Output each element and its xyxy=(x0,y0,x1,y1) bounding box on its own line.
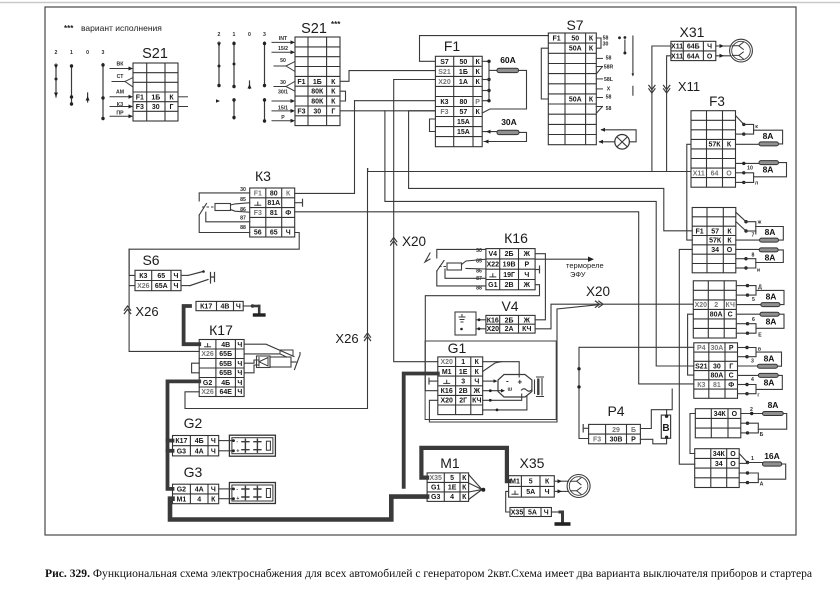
wire Р4 Б up xyxy=(640,389,672,428)
svg-text:К: К xyxy=(727,238,732,245)
stub F3 r7 xyxy=(736,172,744,174)
svg-text:G1: G1 xyxy=(431,485,440,492)
svg-text:65: 65 xyxy=(157,273,165,280)
stub F3 r3 xyxy=(736,133,744,135)
svg-text:О: О xyxy=(730,461,736,468)
wire Р xyxy=(272,120,293,122)
К17 solenoid box xyxy=(270,357,291,367)
svg-text:Ч: Ч xyxy=(236,304,241,311)
svg-text:57: 57 xyxy=(711,228,719,235)
connector X31 table xyxy=(671,41,716,60)
svg-text:64: 64 xyxy=(711,170,719,177)
svg-text:Ж: Ж xyxy=(473,388,481,395)
wire 64А xyxy=(667,56,671,172)
svg-text:1: 1 xyxy=(70,50,73,56)
relay Р4 table xyxy=(589,424,641,443)
wire СТ stem xyxy=(112,81,125,83)
svg-text:X26: X26 xyxy=(137,283,150,290)
thick 4Б xyxy=(168,381,200,489)
svg-text:К: К xyxy=(286,190,291,197)
wire 64Е X26 xyxy=(185,169,368,409)
wire G3 r2 bat xyxy=(219,498,232,500)
stub S7 58R xyxy=(596,66,602,68)
svg-text:К16: К16 xyxy=(441,388,453,395)
fuse block (X20/80А) table xyxy=(693,281,736,338)
svg-text:-: - xyxy=(506,377,509,386)
relay К3 table xyxy=(250,188,295,237)
svg-text:65: 65 xyxy=(270,230,278,237)
svg-text:Г: Г xyxy=(331,108,335,115)
svg-text:X20: X20 xyxy=(487,326,500,333)
svg-text:+: + xyxy=(236,496,239,502)
loop B3 fuse2 xyxy=(756,314,784,328)
svg-text:65А: 65А xyxy=(155,283,168,290)
connector X20 chevron (lower) xyxy=(599,301,603,307)
svg-text:Ч: Ч xyxy=(237,380,242,387)
wire 19Г xyxy=(535,269,539,271)
svg-text:80А: 80А xyxy=(710,373,723,380)
svg-text:85: 85 xyxy=(240,197,246,203)
svg-text:F1: F1 xyxy=(444,38,461,54)
fuse 8А (F3 upper) xyxy=(759,142,779,146)
svg-text:15А: 15А xyxy=(457,129,470,136)
wire X20 1А vertical to G1 xyxy=(394,80,438,362)
stub B6 r2 xyxy=(739,462,747,464)
wire B5 to fuse xyxy=(741,413,763,415)
svg-text:S21: S21 xyxy=(438,69,451,76)
wire X35 r1 plug xyxy=(554,480,568,482)
svg-text:1: 1 xyxy=(233,32,236,38)
svg-text:Ч: Ч xyxy=(237,342,242,349)
svg-text:87: 87 xyxy=(240,216,246,222)
bus F3 right b xyxy=(744,130,754,134)
svg-text:-: - xyxy=(236,487,238,493)
stub F3 r8 xyxy=(736,181,744,183)
svg-text:X26: X26 xyxy=(201,389,214,396)
diag G1 r2 xyxy=(483,362,501,372)
stub S7 58 xyxy=(596,106,602,108)
svg-text:К: К xyxy=(589,97,594,104)
svg-text:8А: 8А xyxy=(763,165,774,175)
svg-text:***: *** xyxy=(64,24,74,33)
wire 57К link xyxy=(687,144,692,240)
svg-text:-: - xyxy=(236,439,238,445)
svg-text:64А: 64А xyxy=(687,53,700,60)
svg-text:Д: Д xyxy=(758,285,762,291)
svg-text:1Е: 1Е xyxy=(448,485,457,492)
svg-text:К: К xyxy=(475,69,480,76)
bracket F1 15А xyxy=(430,119,436,132)
wire G3 r1 bat xyxy=(219,488,232,490)
svg-text:G2: G2 xyxy=(184,415,203,431)
switch position line 3 (S21 v2) xyxy=(264,42,266,122)
diag B6 xyxy=(739,454,747,463)
svg-text:4А: 4А xyxy=(195,487,204,494)
svg-text:К: К xyxy=(475,109,480,116)
fuse block F3 table xyxy=(691,111,736,188)
svg-text:К: К xyxy=(727,228,732,235)
svg-text:30А: 30А xyxy=(710,345,723,352)
stub S6 X26 xyxy=(129,285,135,287)
wire lamp left xyxy=(600,141,615,143)
S7 contact diagonal strokes xyxy=(597,67,603,113)
svg-text:X20: X20 xyxy=(402,234,426,249)
svg-text:81: 81 xyxy=(270,210,278,217)
wire V4 r2 box xyxy=(476,328,486,330)
svg-text:К: К xyxy=(169,94,174,101)
fuse 60А body xyxy=(497,68,519,72)
svg-text:Ч: Ч xyxy=(211,487,216,494)
connector X35-5А table xyxy=(510,508,551,517)
svg-text:С: С xyxy=(729,373,734,380)
stub S7 58 xyxy=(596,97,602,99)
stub B4 r2 xyxy=(738,356,748,358)
wire 80А link xyxy=(688,314,694,375)
svg-text:О: О xyxy=(730,451,736,458)
svg-text:50: 50 xyxy=(571,36,579,43)
page top rule xyxy=(0,2,840,4)
svg-text:Б: Б xyxy=(631,427,636,434)
loop F3 fuse1 xyxy=(754,130,783,144)
bracket B3 up xyxy=(748,286,757,296)
svg-text:30В: 30В xyxy=(610,436,623,443)
connector X11 chevron a xyxy=(649,89,655,93)
connector X11 chevron b xyxy=(664,89,670,93)
svg-text:ш: ш xyxy=(508,387,513,393)
svg-text:л: л xyxy=(755,181,758,187)
svg-text:Ч: Ч xyxy=(211,438,216,445)
generator symbol xyxy=(498,375,532,398)
svg-text:15А: 15А xyxy=(457,119,470,126)
connector X35 table xyxy=(509,476,555,497)
wire 64Б xyxy=(652,46,671,172)
connector X26 chevron (left) xyxy=(124,306,130,310)
switch position line 0 (S21 v2) xyxy=(249,81,251,89)
suppression capacitor at generator xyxy=(535,377,544,397)
svg-text:Рис. 329. Функциональная схема: Рис. 329. Функциональная схема электросн… xyxy=(45,567,812,580)
svg-text:80К: 80К xyxy=(311,89,324,96)
svg-text:X20: X20 xyxy=(438,79,451,86)
svg-text:S21: S21 xyxy=(301,21,327,37)
svg-text:Ч: Ч xyxy=(237,370,242,377)
diag B2 r1 xyxy=(736,212,746,222)
svg-text:К16: К16 xyxy=(504,230,528,246)
svg-text:Р: Р xyxy=(631,436,636,443)
wire G1 r1 + xyxy=(483,362,520,377)
bracket К17 xyxy=(192,363,200,373)
bracket B5 xyxy=(748,423,759,433)
wire К17 r4 elem xyxy=(244,365,258,373)
wire to 16А xyxy=(748,462,763,464)
switch position line 2 (S21 v1) xyxy=(55,64,57,97)
svg-text:Е: Е xyxy=(758,333,762,339)
svg-text:X: X xyxy=(607,87,611,93)
svg-text:50: 50 xyxy=(460,59,468,66)
svg-text:К3: К3 xyxy=(139,273,147,280)
svg-text:Ч: Ч xyxy=(237,389,242,396)
connector X20 chevron (upper) xyxy=(391,238,397,242)
svg-text:2А: 2А xyxy=(505,326,514,333)
stub B4 r1 xyxy=(738,347,748,349)
stub S7 X xyxy=(596,88,602,90)
svg-text:6: 6 xyxy=(752,317,755,323)
battery symbol G2 xyxy=(229,435,275,456)
wire to F3 64 xyxy=(368,171,691,173)
diag B2 r2 xyxy=(736,222,746,232)
svg-text:К: К xyxy=(331,79,336,86)
svg-text:0: 0 xyxy=(248,32,251,38)
svg-text:S21: S21 xyxy=(142,46,168,62)
fuse 8А (B2 upper) xyxy=(760,238,779,242)
bracket 80К xyxy=(340,91,346,101)
stub F1 row4 xyxy=(482,90,489,92)
wire К16 87 xyxy=(445,269,486,278)
plug symbol at X35 xyxy=(567,475,590,498)
svg-text:7: 7 xyxy=(752,233,755,239)
svg-text:1Б: 1Б xyxy=(151,94,160,101)
svg-text:30: 30 xyxy=(240,187,246,193)
svg-text:К: К xyxy=(462,494,467,501)
loop B4 fuse1 xyxy=(756,352,782,366)
wire 4В gnd xyxy=(243,305,252,307)
wire 15/1 xyxy=(272,110,293,112)
svg-text:80А: 80А xyxy=(710,312,723,319)
wire pin86 coil xyxy=(231,210,250,213)
wire 5А gnd xyxy=(551,511,560,513)
bus B2 xyxy=(746,222,756,234)
svg-text:2Б: 2Б xyxy=(505,317,514,324)
svg-text:К: К xyxy=(475,369,480,376)
fuse 30А body xyxy=(497,130,519,134)
svg-text:X11: X11 xyxy=(693,170,705,177)
svg-text:81: 81 xyxy=(713,382,721,389)
svg-text:F1: F1 xyxy=(696,228,704,235)
svg-text:1Б: 1Б xyxy=(459,69,468,76)
svg-text:34К: 34К xyxy=(714,411,727,418)
svg-text:Р: Р xyxy=(475,99,480,106)
svg-text:8А: 8А xyxy=(765,253,776,263)
wire ВК xyxy=(110,68,131,70)
wire 30/1 xyxy=(272,100,293,102)
svg-text:34: 34 xyxy=(715,461,723,468)
wire X31 row2 plug xyxy=(716,55,731,57)
wire КЗ xyxy=(110,106,131,108)
wire pin88 xyxy=(199,215,250,233)
stub B4 r5 xyxy=(738,384,748,386)
svg-text:3: 3 xyxy=(461,378,465,385)
svg-text:F3: F3 xyxy=(440,109,448,116)
svg-text:G3: G3 xyxy=(177,448,186,455)
svg-text:Ж: Ж xyxy=(523,251,531,258)
svg-text:К: К xyxy=(589,36,594,43)
svg-text:К16: К16 xyxy=(487,317,499,324)
svg-text:30: 30 xyxy=(152,104,160,111)
svg-text:К: К xyxy=(331,99,336,106)
bus B2 b xyxy=(746,230,756,232)
svg-text:К: К xyxy=(727,142,732,149)
bracket B6 xyxy=(748,473,759,483)
wire 15/2 xyxy=(272,51,293,53)
wire 2Б xyxy=(535,254,545,320)
svg-text:58R: 58R xyxy=(604,65,614,71)
svg-text:58: 58 xyxy=(606,106,612,112)
К3 coil xyxy=(215,204,231,211)
reference strokes column right of S7 xyxy=(618,36,621,39)
svg-text:F3: F3 xyxy=(709,94,725,109)
К3 mech link dashed xyxy=(202,206,215,208)
svg-text:V4: V4 xyxy=(501,298,518,314)
wire 50 up xyxy=(286,62,295,67)
wire К17 r2 elem xyxy=(244,354,286,357)
svg-text:S21: S21 xyxy=(695,363,708,370)
fuse block (34) table xyxy=(695,449,740,488)
svg-text:Г: Г xyxy=(729,363,733,370)
svg-text:F1: F1 xyxy=(254,190,262,197)
svg-text:G3: G3 xyxy=(184,464,203,480)
thick 4В xyxy=(184,306,200,344)
svg-text:КЗ: КЗ xyxy=(117,102,124,108)
fuse 16А xyxy=(763,462,782,466)
svg-text:G3: G3 xyxy=(431,494,440,501)
wire 2А X20 xyxy=(535,304,693,329)
svg-text:30: 30 xyxy=(713,363,721,370)
bracket B3 low xyxy=(748,324,757,334)
svg-text:0: 0 xyxy=(86,50,89,56)
wire S21 30Г to fuse block B4 row S21-30-Г xyxy=(385,111,694,366)
svg-text:80К: 80К xyxy=(311,99,324,106)
svg-text:5: 5 xyxy=(752,297,755,303)
svg-text:Ч: Ч xyxy=(237,361,242,368)
svg-text:5: 5 xyxy=(450,475,454,482)
svg-text:X11: X11 xyxy=(678,79,700,94)
wire К3 65 xyxy=(129,233,299,276)
fuse block (57/34) table xyxy=(692,208,736,273)
wire 2Г xyxy=(429,305,599,422)
wire СТ fork down xyxy=(125,82,133,88)
wire X31 row1 plug xyxy=(716,45,731,47)
bracket B4 low xyxy=(747,385,756,394)
svg-text:S7: S7 xyxy=(440,59,449,66)
svg-text:ж: ж xyxy=(757,220,762,226)
wire 30 stem xyxy=(274,86,286,88)
svg-text:Р: Р xyxy=(281,115,285,121)
fuse 8А (B4 upper) xyxy=(758,364,778,368)
svg-text:М1: М1 xyxy=(510,479,520,486)
fuse 8А (B2 lower) xyxy=(759,248,778,252)
svg-text:Ф: Ф xyxy=(728,382,734,389)
svg-text:КЧ: КЧ xyxy=(522,326,531,333)
svg-text:АМ: АМ xyxy=(116,90,124,96)
svg-text:4: 4 xyxy=(751,377,754,383)
wire Р4 Р under xyxy=(640,438,666,444)
stub S7 58 xyxy=(596,57,602,59)
wire СТ fork up xyxy=(125,78,133,82)
svg-text:Ж: Ж xyxy=(523,282,531,289)
svg-text:Р: Р xyxy=(524,262,529,269)
svg-text:10: 10 xyxy=(747,166,753,172)
svg-text:К17: К17 xyxy=(200,304,212,311)
К17 diode symbol xyxy=(257,356,271,368)
fuse 8А (B3 lower) xyxy=(760,312,779,316)
battery symbol G3 xyxy=(229,483,275,504)
svg-text:1: 1 xyxy=(461,359,465,366)
stub B2 r7 xyxy=(736,267,746,269)
svg-text:5А: 5А xyxy=(526,489,535,496)
plug symbol at X31 xyxy=(730,39,753,62)
svg-text:2: 2 xyxy=(218,32,221,38)
wire G2 r1 bat xyxy=(219,440,232,442)
wire 5А xyxy=(506,491,510,512)
wire К3 Ф long xyxy=(295,212,694,384)
bracket B2 lower xyxy=(746,259,756,268)
stub F1 row3 xyxy=(482,79,489,81)
svg-text:1А: 1А xyxy=(459,79,468,86)
wire К17 r1 elem xyxy=(244,344,294,356)
svg-text:ПР: ПР xyxy=(116,111,124,117)
svg-text:2В: 2В xyxy=(459,388,468,395)
fuse unit F1 table xyxy=(435,56,482,146)
wire 30 up xyxy=(286,81,295,86)
svg-text:К: К xyxy=(462,485,467,492)
svg-text:S6: S6 xyxy=(142,252,159,268)
svg-text:F1: F1 xyxy=(553,36,561,43)
stub B5 r3 xyxy=(741,432,748,434)
svg-text:+: + xyxy=(236,449,239,455)
svg-text:Г: Г xyxy=(170,104,174,111)
svg-text:5А: 5А xyxy=(528,510,537,517)
svg-text:4Б: 4Б xyxy=(195,438,204,445)
svg-text:Ч: Ч xyxy=(544,510,549,517)
svg-text:INT: INT xyxy=(279,36,288,42)
wire B4 S21-30 to fuse xyxy=(738,365,758,367)
svg-text:F3: F3 xyxy=(254,210,262,217)
svg-text:3: 3 xyxy=(751,359,754,365)
fuse 8А (F3 lower) xyxy=(759,161,779,165)
wire X35 r2 plug xyxy=(554,490,568,492)
К16 coil xyxy=(447,263,462,270)
svg-text:Ж: Ж xyxy=(523,317,531,324)
svg-text:КЧ: КЧ xyxy=(472,398,481,405)
svg-text:О: О xyxy=(726,170,732,177)
svg-text:4В: 4В xyxy=(221,304,230,311)
stub row F1-1Б xyxy=(178,96,188,98)
svg-text:G2: G2 xyxy=(177,487,186,494)
wire 81А xyxy=(295,202,303,204)
switch position line 3 (S21 v1) xyxy=(102,64,104,120)
svg-text:65В: 65В xyxy=(219,361,232,368)
svg-text:50А: 50А xyxy=(569,97,582,104)
wire К16 88 xyxy=(437,271,486,286)
svg-text:***: *** xyxy=(331,20,341,29)
wire АМ xyxy=(110,96,131,98)
wire B3 X20 to fuse xyxy=(736,304,761,306)
wire F1 57 long route xyxy=(409,111,693,231)
svg-text:к: к xyxy=(755,124,758,130)
svg-text:К: К xyxy=(331,89,336,96)
svg-text:О: О xyxy=(732,411,738,418)
thick 5 xyxy=(421,448,508,481)
svg-text:X20: X20 xyxy=(440,359,453,366)
svg-text:Р: Р xyxy=(729,345,734,352)
wire 50 stem xyxy=(274,65,286,67)
svg-text:ЭФУ: ЭФУ xyxy=(570,270,586,279)
wire bus to fuse 60А xyxy=(489,69,497,71)
svg-text:8А: 8А xyxy=(764,378,775,388)
К16 mech link dashed xyxy=(439,266,447,268)
battery G2 table xyxy=(173,436,219,456)
svg-text:Ч: Ч xyxy=(707,44,712,51)
svg-text:4: 4 xyxy=(197,496,201,503)
